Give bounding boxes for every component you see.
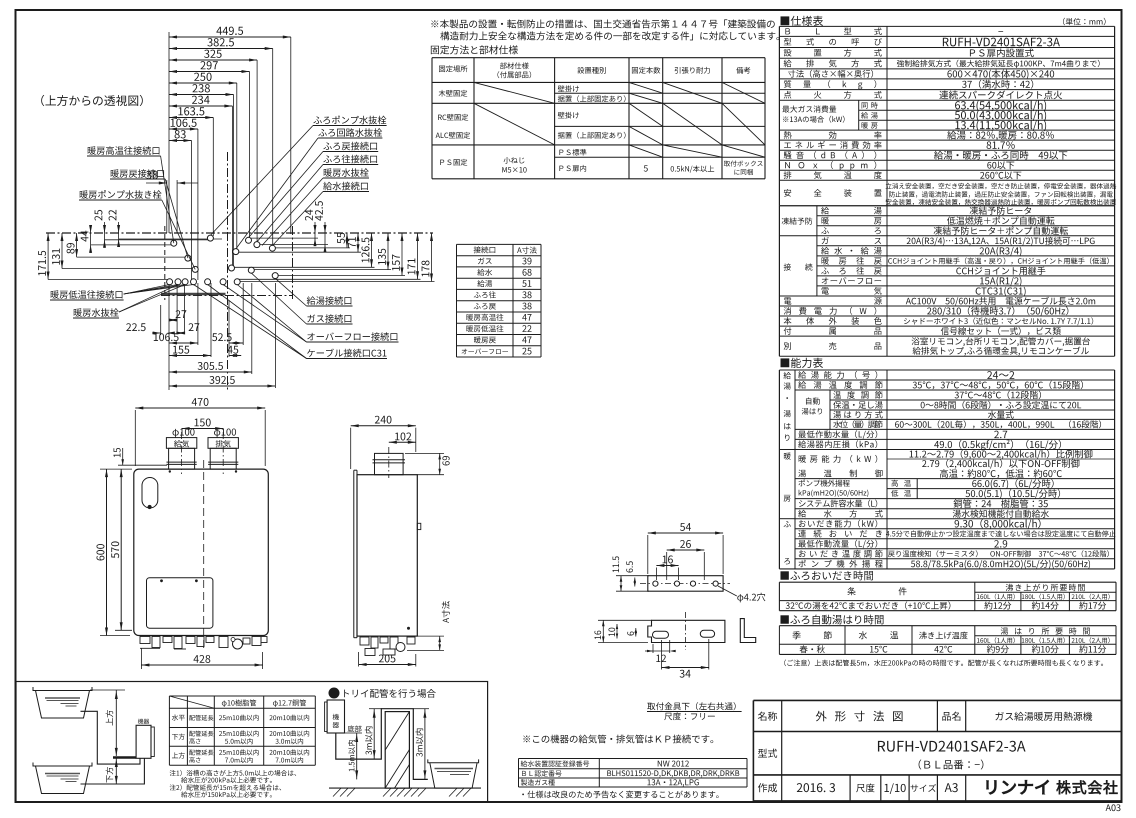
front oval sight glass — [142, 478, 158, 509]
bracket dim 11.5 — [620, 576, 622, 592]
yuhari table — [779, 625, 1116, 627]
bracket dim 12 — [652, 644, 654, 653]
row 騒音 — [784, 151, 877, 159]
row 給排気方式 — [784, 59, 882, 67]
top view title — [41, 95, 143, 106]
front center line — [203, 460, 205, 648]
row 最大ガス消費量 — [858, 100, 860, 130]
row 電源 — [784, 297, 882, 305]
spec table grid upper — [779, 25, 1114, 27]
connection size table 接続口A寸法 — [457, 243, 542, 245]
label ふろ回路水抜栓 — [318, 128, 382, 137]
dim A寸法 — [439, 636, 441, 650]
dim 240 — [351, 425, 416, 427]
bottom dims — [168, 283, 170, 390]
label ガス接続口 — [307, 314, 351, 322]
fixing methods table — [432, 57, 765, 59]
piping length table — [169, 695, 315, 697]
torii dim 3m right — [424, 709, 426, 780]
side bottom fittings — [360, 637, 369, 645]
row 質量 — [784, 80, 876, 89]
label ふろ戻接続口 — [323, 142, 377, 151]
label ふろポンプ水抜栓 — [313, 116, 386, 125]
group 接続 — [784, 263, 791, 270]
side protrusion — [417, 523, 421, 529]
dim 15 — [122, 448, 124, 465]
top dimension stack — [169, 36, 291, 38]
dim 428 — [141, 664, 262, 666]
title block frame — [753, 699, 1121, 701]
row 寸法 — [788, 70, 873, 78]
title ふろ自動湯はり時間 — [780, 615, 883, 625]
fixing table row labels — [439, 90, 468, 97]
dim 38 — [166, 180, 168, 233]
torii pipe — [336, 709, 428, 780]
torii wall hatch — [385, 712, 409, 750]
certification table — [519, 758, 748, 760]
labels φ100 — [173, 428, 195, 437]
row 付属品 — [784, 327, 882, 335]
front view exhaust pipe 排気 — [210, 448, 236, 469]
dim 470 — [135, 407, 265, 409]
left vertical dims — [47, 233, 49, 280]
bracket lower dims — [602, 620, 604, 642]
dim 下方 — [115, 758, 117, 784]
piping lines left diagram — [81, 711, 141, 764]
capacity table title 能力表 — [781, 358, 824, 368]
title ふろおいだき時間 — [780, 571, 873, 581]
note ご注意 — [784, 659, 1103, 666]
installation note text — [431, 19, 774, 28]
dim 69 — [439, 453, 441, 474]
row エネルギー消費効率 — [784, 141, 881, 149]
label 給水接続口 — [323, 182, 368, 190]
label 給湯接続口 — [307, 296, 352, 304]
label 暖房低温往接続口 — [51, 290, 123, 299]
dim 570 — [120, 469, 122, 630]
label 暖房戻接続口 — [111, 169, 164, 178]
row 点火方式 — [784, 91, 882, 99]
capacity table grid — [778, 370, 780, 569]
rows ふろ — [799, 520, 877, 528]
bracket dim 6.5 — [634, 578, 636, 587]
torii piping title — [329, 688, 340, 699]
top view unit outline centerlines — [46, 232, 433, 234]
front view body — [134, 469, 268, 635]
lower bath tub — [33, 763, 92, 767]
row 型式の呼び — [784, 38, 882, 46]
rows 暖房 — [799, 455, 878, 463]
left small dims 25 22 — [104, 222, 106, 248]
torii dim 1.5m — [356, 733, 358, 779]
piping section frame — [16, 682, 488, 803]
bracket upper plate — [648, 576, 723, 592]
connector ports — [171, 240, 177, 246]
page code A03 — [1106, 804, 1121, 811]
dim 上方 — [115, 690, 117, 756]
label 暖房ポンプ水抜き栓 — [80, 190, 162, 199]
label 底部 — [348, 725, 362, 732]
note 仕様変更 — [522, 791, 718, 799]
fixing table title 固定方法と部材仕様 — [431, 45, 518, 54]
PS wall thick segment — [161, 293, 226, 296]
front view intake pipe 給気 — [169, 448, 195, 469]
spec table grid lower — [779, 205, 1114, 207]
title block row3 — [781, 775, 783, 801]
label 暖房水抜栓(right) — [324, 168, 369, 177]
note KP接続 — [523, 735, 713, 744]
side view wall flange — [353, 470, 355, 638]
bracket dim 34 — [662, 667, 709, 669]
row 安全装置 — [784, 189, 882, 197]
bracket L piece — [740, 619, 755, 643]
dim 600 — [106, 469, 108, 635]
row NOx — [785, 161, 876, 170]
capacity group labels — [783, 372, 790, 379]
side view pipe — [375, 453, 404, 474]
front bottom fittings — [140, 637, 150, 644]
title block row2 — [781, 732, 783, 775]
rows 給湯 — [798, 371, 877, 379]
label ケーブル接続口C31 — [307, 349, 386, 358]
label オーバーフロー接続口 — [307, 332, 397, 340]
side view body — [357, 475, 417, 636]
label 暖房高温往接続口 — [88, 146, 160, 155]
group 凍結予防 — [782, 217, 813, 224]
row 本体外装色 — [784, 317, 882, 325]
bracket dims upper — [648, 532, 723, 534]
spec table title 仕様表 — [781, 16, 824, 26]
dim 205 — [359, 664, 416, 666]
torii dim 3m left — [373, 709, 375, 759]
label ふろ往接続口 — [323, 155, 377, 163]
heater unit box left — [136, 725, 151, 758]
right vertical dims — [314, 222, 316, 246]
bracket lower plate — [648, 620, 725, 642]
ground line and hatching — [329, 787, 481, 789]
dim 150 — [182, 428, 224, 430]
dim 102 — [389, 441, 416, 443]
label φ4.2穴 — [737, 593, 765, 603]
row 熱効率 — [784, 131, 882, 139]
fixing table diagonals — [474, 82, 555, 103]
torii right tub — [428, 759, 479, 762]
torii heater unit — [327, 700, 344, 733]
row 別売品 — [784, 342, 882, 350]
label 暖房水抜栓(left) — [74, 308, 119, 317]
piping notes — [170, 770, 297, 776]
title block row1 — [781, 700, 783, 731]
torii wall — [385, 712, 409, 789]
row 排気温度 — [784, 171, 882, 179]
label 取付金具下 — [647, 702, 735, 710]
row 設置方式 — [784, 49, 882, 57]
row BL型式 — [785, 27, 881, 35]
row 消費電力 — [784, 307, 877, 315]
logo リンナイ株式会社 — [987, 780, 1049, 794]
oidaki table — [779, 581, 1116, 583]
pipe centerlines — [181, 432, 183, 474]
upper bath tub — [33, 687, 92, 691]
front service panel — [147, 578, 213, 629]
